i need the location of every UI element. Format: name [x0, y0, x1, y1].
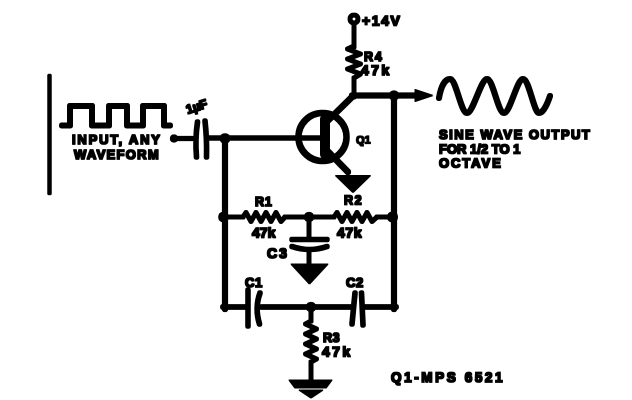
capacitor C3	[307, 217, 311, 238]
node: left feedback junction	[219, 212, 229, 222]
power terminal +14V	[350, 15, 358, 23]
svg-text:R2: R2	[344, 194, 363, 208]
svg-text:OCTAVE: OCTAVE	[439, 156, 503, 171]
wire left vertical feedback	[222, 138, 227, 309]
transistor Q1 emitter arrow	[336, 176, 371, 193]
wire right vertical	[391, 95, 396, 309]
resistor R4 47k	[352, 23, 356, 47]
svg-text:47k: 47k	[361, 62, 392, 78]
svg-text:FOR 1/2 TO 1: FOR 1/2 TO 1	[439, 142, 520, 157]
svg-text:C3: C3	[267, 245, 289, 261]
svg-text:47k: 47k	[252, 225, 276, 241]
input square wave symbol	[62, 106, 170, 126]
sine wave output symbol	[439, 79, 550, 113]
wire capacitor to base	[208, 136, 324, 141]
transistor Q1	[299, 113, 347, 161]
wire R1R2 line segments	[225, 215, 243, 219]
svg-text:SINE WAVE OUTPUT: SINE WAVE OUTPUT	[439, 127, 591, 142]
svg-text:47k: 47k	[322, 344, 353, 360]
capacitor C2	[352, 293, 355, 324]
capacitor C1	[246, 290, 251, 326]
output arrow	[415, 90, 433, 102]
svg-text:+14V: +14V	[362, 13, 402, 29]
node: junction at input/feedback	[220, 134, 230, 144]
svg-text:Q1-MPS 6521: Q1-MPS 6521	[391, 370, 505, 385]
ground under C3	[307, 251, 311, 266]
svg-text:1µF: 1µF	[184, 97, 209, 117]
svg-text:47k: 47k	[337, 225, 362, 241]
node: bottom junction	[306, 302, 315, 311]
svg-text:WAVEFORM: WAVEFORM	[74, 147, 160, 162]
wire input dot to capacitor	[176, 136, 193, 140]
resistor R2 47k	[334, 213, 377, 222]
node: output junction	[389, 91, 398, 100]
wire bottom horizontal	[223, 305, 246, 310]
label Q1	[356, 135, 371, 147]
svg-text:Q1: Q1	[356, 135, 371, 147]
node: input terminal dot	[170, 135, 177, 142]
label SINE WAVE OUTPUT	[439, 127, 591, 171]
wire collector to output	[352, 93, 420, 98]
label INPUT, ANY WAVEFORM	[72, 132, 162, 162]
svg-text:R1: R1	[255, 195, 273, 209]
resistor R3 47k	[309, 307, 313, 321]
node: right feedback junction	[388, 212, 398, 222]
input edge line	[48, 76, 52, 193]
capacitor Cin 1uF	[196, 122, 198, 157]
svg-text:C2: C2	[346, 275, 364, 290]
label Q1-MPS 6521	[391, 370, 505, 385]
node: mid feedback junction	[304, 212, 313, 221]
svg-text:C1: C1	[245, 275, 263, 290]
resistor R1 47k	[243, 213, 285, 222]
ground at bottom	[289, 380, 332, 388]
svg-text:INPUT, ANY: INPUT, ANY	[72, 132, 162, 147]
